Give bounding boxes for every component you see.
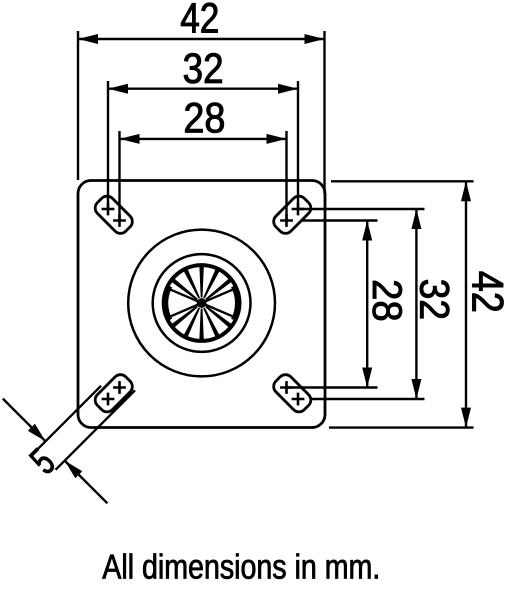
extension line 32 left — [107, 81, 109, 209]
dimension line 28 top — [120, 138, 287, 140]
extension line right 28 bottom — [287, 386, 378, 388]
slot width extension line 2 — [56, 390, 136, 470]
west rim arc — [165, 286, 169, 320]
extension line right bottom edge — [329, 426, 474, 428]
cross mark 28-pattern bottom-left — [113, 381, 126, 394]
east rim arc — [234, 286, 238, 320]
extension line 28 right — [285, 131, 287, 221]
label 42 top — [181, 3, 217, 33]
petal separators — [172, 267, 232, 340]
label 32 top — [184, 53, 222, 83]
extension line 32 right — [297, 81, 299, 209]
hub inner ring — [164, 265, 240, 341]
slot width extension line 1 — [38, 386, 101, 449]
slot hole top-right — [271, 193, 314, 236]
slot width arrow 1 — [3, 399, 46, 442]
extension line right 32 top — [298, 208, 425, 210]
cross mark 32-pattern top-right — [292, 203, 305, 216]
extension line 42 right top — [323, 31, 325, 194]
hub outer circle — [128, 230, 275, 377]
cross mark 28-pattern top-left — [113, 214, 126, 227]
dimension line 32 top — [108, 87, 298, 89]
label 28 top — [185, 103, 223, 133]
label 32 right — [420, 280, 449, 318]
cross mark 32-pattern bottom-left — [102, 393, 115, 406]
dimension line 28 right — [366, 221, 368, 388]
slot hole top-left — [92, 193, 135, 236]
cross mark 32-pattern bottom-right — [292, 393, 305, 406]
label 5 slot width — [28, 447, 56, 475]
footer note — [102, 553, 377, 578]
dimension line 42 top — [78, 38, 325, 40]
dimension line 42 right — [465, 181, 467, 427]
cross mark 28-pattern bottom-right — [280, 381, 293, 394]
hub middle circle — [153, 254, 251, 352]
extension line right 28 top — [302, 219, 378, 221]
extension line right 32 bottom — [311, 398, 425, 400]
cross mark 28-pattern top-right — [280, 214, 293, 227]
cross mark 32-pattern top-left — [102, 203, 115, 216]
plate outline — [78, 181, 325, 428]
V gap lines east west — [168, 289, 234, 318]
dimension line 32 right — [415, 209, 417, 399]
label 42 right — [472, 272, 503, 311]
hub center dot — [197, 298, 207, 308]
slot hole bottom-left — [92, 372, 135, 415]
slot width arrow 2 — [65, 461, 108, 504]
label 28 right — [373, 281, 402, 320]
extension line 42 left — [77, 31, 79, 180]
slot hole bottom-right — [271, 372, 314, 415]
extension line 28 left — [118, 131, 120, 221]
hub inner disc — [162, 263, 241, 342]
extension line right top edge — [331, 180, 474, 182]
